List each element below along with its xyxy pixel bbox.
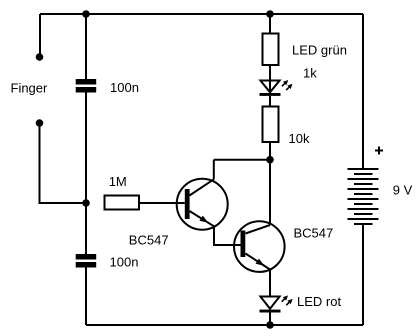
svg-text:9 V: 9 V <box>393 183 413 198</box>
svg-text:1k: 1k <box>303 66 317 81</box>
svg-text:10k: 10k <box>289 131 310 146</box>
svg-text:BC547: BC547 <box>129 233 169 248</box>
svg-text:100n: 100n <box>110 254 139 269</box>
svg-text:100n: 100n <box>110 80 139 95</box>
svg-text:BC547: BC547 <box>294 226 334 241</box>
svg-text:1M: 1M <box>109 174 127 189</box>
svg-text:Finger: Finger <box>11 80 49 95</box>
svg-text:LED grün: LED grün <box>292 43 347 58</box>
svg-text:LED rot: LED rot <box>297 294 341 309</box>
